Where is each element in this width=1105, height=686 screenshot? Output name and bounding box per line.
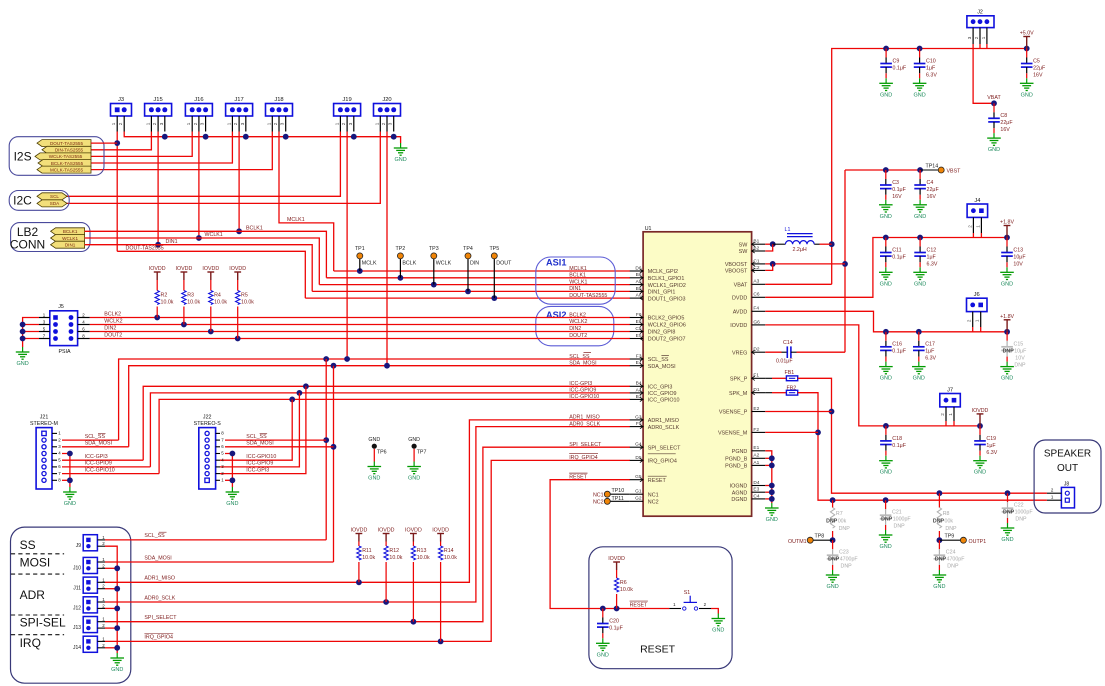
- resistor R12 10.0k: [385, 542, 387, 547]
- svg-text:D2: D2: [753, 347, 759, 353]
- svg-text:22μF: 22μF: [1033, 65, 1046, 71]
- svg-text:DOUT: DOUT: [496, 260, 512, 266]
- svg-text:C12: C12: [927, 247, 937, 253]
- svg-text:10.0k: 10.0k: [241, 300, 254, 306]
- svg-text:R11: R11: [362, 548, 371, 554]
- net tag BCLK1: [51, 228, 85, 235]
- svg-text:C10: C10: [926, 58, 936, 64]
- svg-text:MCLK-TAS2555: MCLK-TAS2555: [50, 167, 84, 172]
- svg-text:J20: J20: [382, 97, 391, 103]
- svg-text:IOVDD: IOVDD: [730, 323, 747, 329]
- svg-text:J15: J15: [153, 97, 162, 103]
- svg-text:1000pF: 1000pF: [1015, 510, 1034, 516]
- wire WCLK1: [85, 238, 320, 285]
- ground at C9: [885, 78, 887, 83]
- U1 pin G5 RESET: [630, 479, 643, 481]
- svg-text:10.0k: 10.0k: [620, 587, 633, 593]
- U1 pin E2 VSENSE_P: [752, 411, 766, 413]
- svg-text:GND: GND: [766, 517, 778, 523]
- wire VBOOST C2 jog: [765, 264, 772, 271]
- ground at C18: [885, 456, 887, 461]
- svg-text:C23: C23: [839, 550, 849, 556]
- svg-text:F5: F5: [636, 421, 642, 427]
- U1 pin B1 SW: [752, 243, 766, 245]
- svg-text:SPEAKER: SPEAKER: [1044, 449, 1091, 460]
- test point TP5: [493, 259, 495, 298]
- wire DIN1: [85, 245, 313, 292]
- ground at C19: [979, 456, 981, 461]
- svg-text:ICC_GPIO9: ICC_GPIO9: [648, 391, 677, 397]
- wire IRQ_GPIO4: [105, 460, 630, 641]
- svg-text:C20: C20: [609, 618, 619, 624]
- svg-text:DNP: DNP: [1003, 510, 1015, 516]
- svg-text:DNP: DNP: [894, 524, 906, 530]
- svg-text:G6: G6: [753, 319, 760, 325]
- wire J16 pin2 WCLK1 vertical: [198, 132, 200, 239]
- svg-text:ICC-GPI3: ICC-GPI3: [85, 454, 108, 460]
- resistor R14 10.0k: [440, 542, 442, 547]
- svg-text:SS: SS: [20, 538, 36, 552]
- wire J16 pin1 to WCLK tag: [91, 132, 192, 157]
- wire VBOOST row: [765, 263, 845, 265]
- svg-text:B6: B6: [636, 272, 642, 278]
- ground at C22: [1007, 523, 1009, 528]
- wire J21 ground pins: [62, 454, 70, 488]
- wire J15 pin2 DIN1 vertical: [157, 132, 159, 245]
- svg-text:C14: C14: [783, 340, 793, 346]
- wire IOVDD rail: [765, 325, 980, 426]
- svg-text:E6: E6: [636, 319, 642, 325]
- wire DVDD rail: [765, 238, 1007, 298]
- svg-text:SPK_P: SPK_P: [730, 377, 748, 383]
- svg-text:ICC-GPIO10: ICC-GPIO10: [246, 454, 276, 460]
- svg-text:WCLK1: WCLK1: [205, 232, 223, 238]
- svg-text:DNP: DNP: [826, 519, 838, 525]
- svg-text:TP14: TP14: [926, 163, 939, 169]
- wire VBOOST vertical: [844, 170, 846, 352]
- svg-text:GND: GND: [826, 584, 838, 590]
- wire ICC-GPIO10 drop to J22: [220, 399, 292, 460]
- wire SCL_SS drop to J9: [325, 359, 327, 540]
- test point TP8 OUTM1: [830, 537, 836, 543]
- U1 pin B4 ICC_GPI3: [630, 385, 643, 387]
- U1 pin F4 AVDD: [752, 310, 766, 312]
- svg-text:10.0k: 10.0k: [214, 300, 227, 306]
- svg-text:IOVDD: IOVDD: [405, 528, 422, 534]
- svg-text:C2: C2: [753, 265, 759, 271]
- SPEAKER OUT group box: [1034, 440, 1101, 513]
- svg-text:VBOOST: VBOOST: [725, 262, 748, 268]
- svg-text:J3: J3: [118, 97, 124, 103]
- wire SW to L1 and VBAT vertical: [765, 243, 772, 245]
- svg-text:DGND: DGND: [731, 497, 747, 503]
- svg-text:1μF: 1μF: [927, 254, 937, 260]
- svg-text:MCLK: MCLK: [362, 260, 377, 266]
- resistor R5 10.0k: [237, 280, 239, 291]
- U1 pin G4 SPI_SELECT: [630, 446, 643, 448]
- svg-text:C3: C3: [892, 180, 899, 186]
- svg-text:I2C: I2C: [13, 194, 32, 208]
- capacitor C23 DNP 4700pF: [832, 540, 834, 549]
- U1 pin C2 VBOOST: [752, 269, 766, 271]
- svg-text:DIN-TAS2555: DIN-TAS2555: [55, 148, 84, 153]
- svg-text:SCL_SS: SCL_SS: [85, 434, 106, 440]
- svg-text:10.0k: 10.0k: [362, 555, 375, 561]
- svg-text:ADR: ADR: [20, 588, 46, 602]
- wire AVDD rail: [765, 311, 1007, 332]
- svg-text:DIN1_GPI1: DIN1_GPI1: [648, 290, 676, 296]
- svg-text:R5: R5: [241, 293, 248, 299]
- wire J21 SCL_SS: [62, 439, 119, 441]
- svg-text:2: 2: [381, 122, 386, 125]
- svg-text:GND: GND: [111, 667, 123, 673]
- svg-text:2: 2: [967, 319, 972, 322]
- svg-text:C24: C24: [946, 550, 956, 556]
- svg-text:DNP: DNP: [1014, 363, 1026, 369]
- svg-text:J21: J21: [40, 414, 49, 420]
- svg-text:WCLK1: WCLK1: [569, 279, 587, 285]
- wire SDA_MOSI to J10: [105, 561, 334, 563]
- svg-text:DOUT-TAS2555: DOUT-TAS2555: [569, 293, 607, 299]
- svg-text:C19: C19: [986, 436, 996, 442]
- capacitor C10 1uF: [919, 49, 921, 58]
- svg-text:R8: R8: [943, 511, 950, 517]
- svg-text:GND: GND: [880, 470, 892, 476]
- SS MOSI ADR group box: [11, 527, 131, 683]
- ground at C11: [885, 267, 887, 272]
- svg-text:0.1μF: 0.1μF: [892, 254, 906, 260]
- svg-text:STEREO-S: STEREO-S: [194, 421, 222, 427]
- ground at S1: [717, 614, 719, 619]
- svg-text:B1: B1: [753, 239, 759, 245]
- ground at J20 bus: [400, 143, 402, 148]
- wire J21 SDA_MOSI: [62, 446, 129, 448]
- svg-text:J5: J5: [58, 304, 64, 310]
- svg-text:MCLK1: MCLK1: [287, 217, 305, 223]
- svg-text:R7: R7: [836, 511, 843, 517]
- U1 pin F3 SCL_SS: [630, 358, 643, 360]
- resistor R8 DNP: [938, 493, 940, 507]
- ground at C21: [885, 530, 887, 535]
- wire GND bus under connectors: [124, 132, 400, 144]
- net tag SDA: [37, 200, 67, 207]
- capacitor C9 0.1uF: [885, 49, 887, 58]
- resistor R6 10.0k: [616, 570, 618, 578]
- U1 pin E3 AGND: [752, 491, 766, 493]
- wire SCL_SS row: [119, 359, 630, 440]
- svg-text:BCLK: BCLK: [402, 260, 416, 266]
- U1 pin F5 ADR0_SCLK: [630, 426, 643, 428]
- svg-text:00k: 00k: [838, 519, 847, 525]
- svg-text:GND: GND: [408, 476, 420, 482]
- svg-text:ICC-GPIO10: ICC-GPIO10: [85, 467, 115, 473]
- svg-text:SPI-SEL: SPI-SEL: [20, 615, 66, 629]
- svg-text:1: 1: [226, 122, 231, 125]
- svg-text:OUTM1: OUTM1: [788, 539, 807, 545]
- wire J22 ground pins: [225, 454, 232, 488]
- svg-text:6.3V: 6.3V: [986, 450, 997, 456]
- svg-text:C13: C13: [1013, 247, 1023, 253]
- ground at U1 PGND: [771, 503, 773, 508]
- svg-text:TP6: TP6: [377, 449, 387, 455]
- svg-text:GND: GND: [368, 437, 380, 443]
- svg-text:R12: R12: [389, 548, 399, 554]
- capacitor C5 22uF: [1026, 49, 1028, 58]
- ground at C20: [602, 638, 604, 643]
- wire SPK_M: [798, 393, 1047, 501]
- svg-text:J2: J2: [977, 10, 983, 16]
- svg-text:C18: C18: [892, 436, 902, 442]
- svg-text:GND: GND: [16, 361, 28, 367]
- ground at C16: [885, 362, 887, 367]
- svg-text:+1.8V: +1.8V: [1000, 314, 1014, 320]
- wire VSENSE_P row: [765, 411, 831, 413]
- svg-text:J11: J11: [73, 586, 81, 592]
- svg-text:2: 2: [273, 122, 278, 125]
- capacitor C11 0.1uF: [885, 238, 887, 247]
- wire ADR0_SCLK: [105, 427, 630, 602]
- svg-text:J14: J14: [73, 645, 81, 651]
- svg-text:WCLK-TAS2555: WCLK-TAS2555: [49, 154, 83, 159]
- svg-text:C1: C1: [753, 258, 759, 264]
- svg-text:C16: C16: [892, 342, 902, 348]
- svg-text:BCLK1: BCLK1: [569, 273, 586, 279]
- svg-text:E2: E2: [753, 406, 759, 412]
- svg-text:10V: 10V: [1015, 356, 1025, 362]
- svg-text:1μF: 1μF: [926, 65, 936, 71]
- svg-text:GND: GND: [1021, 92, 1033, 98]
- svg-text:SCL_SS: SCL_SS: [144, 533, 165, 539]
- svg-text:SDA_MOSI: SDA_MOSI: [246, 441, 273, 447]
- svg-text:DIN2: DIN2: [104, 325, 116, 331]
- svg-text:16V: 16V: [927, 194, 937, 200]
- svg-text:IOVDD: IOVDD: [432, 528, 449, 534]
- svg-text:ICC-GPIO9: ICC-GPIO9: [246, 461, 273, 467]
- svg-text:RESET: RESET: [640, 644, 676, 656]
- U1 pin E1 PGND: [752, 450, 766, 452]
- svg-text:3: 3: [200, 122, 205, 125]
- test point TP11 NC2: [610, 500, 630, 502]
- svg-text:SCL_SS: SCL_SS: [648, 357, 669, 363]
- svg-text:2: 2: [341, 122, 346, 125]
- wire J21 ICC-GPIO9: [62, 466, 150, 468]
- net tag WCLK1: [51, 235, 85, 242]
- svg-text:SDA_MOSI: SDA_MOSI: [85, 441, 112, 447]
- svg-text:2: 2: [940, 413, 945, 416]
- svg-text:0.1μF: 0.1μF: [892, 187, 906, 193]
- svg-text:10μF: 10μF: [1014, 349, 1027, 355]
- svg-text:DIN: DIN: [470, 260, 479, 266]
- svg-text:1: 1: [334, 122, 339, 125]
- svg-text:ICC_GPIO10: ICC_GPIO10: [648, 398, 680, 404]
- wire J15 pin1 to DIN tag: [91, 132, 151, 150]
- capacitor C24 DNP 4700pF: [938, 540, 940, 549]
- svg-text:C15: C15: [1014, 342, 1024, 348]
- U1 pin A6 DOUT1_GPIO3: [630, 297, 643, 299]
- svg-text:SPK_M: SPK_M: [729, 391, 748, 397]
- svg-text:TP9: TP9: [945, 534, 955, 540]
- svg-text:GND: GND: [408, 437, 420, 443]
- svg-text:J8: J8: [1064, 482, 1070, 488]
- svg-text:SCL_SS: SCL_SS: [246, 434, 267, 440]
- svg-text:F1: F1: [753, 373, 759, 379]
- connector J14: [83, 636, 97, 652]
- svg-text:J22: J22: [203, 414, 212, 420]
- svg-text:SCL: SCL: [50, 194, 59, 199]
- svg-text:IOVDD: IOVDD: [378, 528, 395, 534]
- svg-text:IOVDD: IOVDD: [202, 266, 219, 272]
- svg-text:C21: C21: [892, 510, 902, 516]
- svg-text:SW: SW: [739, 242, 749, 248]
- svg-text:2: 2: [974, 36, 979, 39]
- svg-text:DOUT1_GPIO3: DOUT1_GPIO3: [648, 296, 686, 302]
- U1 pin A2 PGND_B: [752, 457, 766, 459]
- resistor R7 DNP: [832, 500, 834, 507]
- svg-text:FB1: FB1: [785, 370, 795, 376]
- svg-text:A2: A2: [753, 453, 759, 459]
- svg-text:WCLK2_GPIO6: WCLK2_GPIO6: [648, 323, 686, 329]
- wire J20 pin2 SDA vertical: [386, 132, 388, 366]
- svg-text:B4: B4: [636, 381, 642, 387]
- svg-text:2: 2: [193, 122, 198, 125]
- U1 pin G1 NC1: [630, 493, 643, 495]
- ground at C12: [919, 267, 921, 272]
- svg-text:F6: F6: [636, 312, 642, 318]
- svg-text:TP5: TP5: [489, 246, 499, 252]
- I2C group box: [9, 191, 69, 211]
- svg-text:VBAT: VBAT: [987, 95, 1001, 101]
- svg-text:BCLK2: BCLK2: [104, 311, 121, 317]
- svg-text:A5: A5: [636, 279, 642, 285]
- wire J21 ICC-GPIO10: [62, 473, 159, 475]
- svg-text:C17: C17: [925, 342, 935, 348]
- svg-text:C5: C5: [1033, 58, 1040, 64]
- connector J9: [83, 535, 97, 551]
- svg-text:WCLK1_GPIO2: WCLK1_GPIO2: [648, 283, 686, 289]
- op-amp U1 TAS2555: [643, 232, 752, 516]
- svg-text:SDA_MOSI: SDA_MOSI: [144, 555, 171, 561]
- svg-text:B5: B5: [636, 286, 642, 292]
- svg-text:C4: C4: [753, 493, 759, 499]
- LB2 CONN group box: [11, 223, 90, 252]
- svg-text:NC2: NC2: [648, 500, 659, 506]
- svg-text:PGND_B: PGND_B: [725, 464, 748, 470]
- wire ICC-GPIO10 row: [159, 399, 630, 473]
- wire SPI_SELECT: [105, 447, 630, 622]
- svg-text:DOUT-TAS2555: DOUT-TAS2555: [50, 141, 84, 146]
- resistor R3 10.0k: [183, 280, 185, 291]
- wire SW B2 jog: [765, 244, 772, 251]
- svg-text:NC1: NC1: [593, 493, 604, 499]
- svg-text:PGND: PGND: [732, 449, 748, 455]
- svg-text:3: 3: [240, 122, 245, 125]
- svg-text:G3: G3: [635, 414, 642, 420]
- ground at C15: [1006, 362, 1008, 367]
- svg-text:TP8: TP8: [815, 534, 825, 540]
- svg-text:DNP: DNP: [828, 557, 840, 563]
- svg-text:ADR0_SCLK: ADR0_SCLK: [648, 425, 680, 431]
- svg-text:1: 1: [975, 319, 980, 322]
- svg-text:PSIA: PSIA: [58, 349, 71, 355]
- svg-text:SPI_SELECT: SPI_SELECT: [144, 615, 177, 621]
- svg-text:IOVDD: IOVDD: [608, 556, 625, 562]
- ASI1 group box: [536, 257, 615, 304]
- wire J22 SDA_MOSI: [225, 446, 334, 448]
- U1 pin F1 SPK_P: [752, 377, 766, 379]
- U1 pin B5 DIN1_GPI1: [630, 290, 643, 292]
- svg-text:D4: D4: [753, 480, 759, 486]
- U1 pin G3 ADR1_MISO: [630, 419, 643, 421]
- svg-text:GND: GND: [913, 92, 925, 98]
- capacitor C13 10uF: [1006, 238, 1008, 247]
- wire BCLK1: [85, 231, 327, 277]
- svg-text:MCLK_GPI2: MCLK_GPI2: [648, 269, 678, 275]
- svg-text:NC1: NC1: [648, 492, 659, 498]
- svg-text:J6: J6: [974, 292, 980, 298]
- U1 pin G6 IOVDD: [752, 324, 766, 326]
- svg-text:TP4: TP4: [463, 246, 473, 252]
- svg-text:0.01μF: 0.01μF: [776, 359, 793, 365]
- svg-text:IOVDD: IOVDD: [149, 266, 166, 272]
- svg-text:L1: L1: [785, 227, 791, 233]
- svg-text:DOUT2: DOUT2: [104, 332, 122, 338]
- svg-text:VREG: VREG: [732, 350, 747, 356]
- wire DIN1 row: [312, 290, 630, 292]
- net tag DIN1: [51, 241, 85, 248]
- ASI2 group box: [536, 306, 614, 345]
- capacitor C17 1uF: [918, 332, 920, 341]
- wire DOUT-TAS2555 row: [305, 297, 630, 299]
- svg-text:R14: R14: [444, 548, 454, 554]
- capacitor C20 0.1uF: [602, 609, 604, 618]
- svg-text:G1: G1: [635, 489, 642, 495]
- svg-text:GND: GND: [1001, 537, 1013, 543]
- capacitor C22 DNP 1000pF: [1007, 493, 1009, 502]
- svg-text:G2: G2: [635, 496, 642, 502]
- U1 pin A3 VBAT: [752, 283, 766, 285]
- test point TP14 VBST: [920, 169, 938, 171]
- svg-text:WCLK1: WCLK1: [62, 236, 78, 241]
- svg-text:3: 3: [280, 122, 285, 125]
- svg-text:WCLK: WCLK: [436, 260, 452, 266]
- svg-text:VSENSE_P: VSENSE_P: [719, 410, 748, 416]
- wire J2 pins 1-2 to +5V bus: [979, 44, 981, 49]
- connector J12: [83, 597, 97, 613]
- svg-text:GND: GND: [64, 501, 76, 507]
- svg-text:VBOOST: VBOOST: [725, 269, 748, 275]
- resistor R2 10.0k: [156, 280, 158, 291]
- svg-text:TP3: TP3: [429, 246, 439, 252]
- svg-text:IOVDD: IOVDD: [351, 528, 368, 534]
- svg-text:4700pF: 4700pF: [840, 557, 859, 563]
- capacitor C12 1uF: [919, 238, 921, 247]
- U1 pin C1 VBOOST: [752, 263, 766, 265]
- U1 pin A5 WCLK1_GPIO2: [630, 284, 643, 286]
- svg-text:GND: GND: [880, 281, 892, 287]
- U1 pin D5 IRQ_GPIO4: [630, 459, 643, 461]
- svg-text:F2: F2: [753, 427, 759, 433]
- capacitor C3 0.1uF: [885, 170, 887, 179]
- svg-text:B3: B3: [636, 394, 642, 400]
- svg-text:6.3V: 6.3V: [926, 72, 937, 78]
- test point TP3: [433, 259, 435, 285]
- svg-text:10.0k: 10.0k: [389, 555, 402, 561]
- svg-text:2: 2: [118, 122, 123, 125]
- wire VSENSE_M row: [765, 431, 818, 433]
- svg-text:1: 1: [266, 122, 271, 125]
- svg-text:TP11: TP11: [612, 496, 624, 502]
- wire +5V top bus: [832, 49, 1027, 285]
